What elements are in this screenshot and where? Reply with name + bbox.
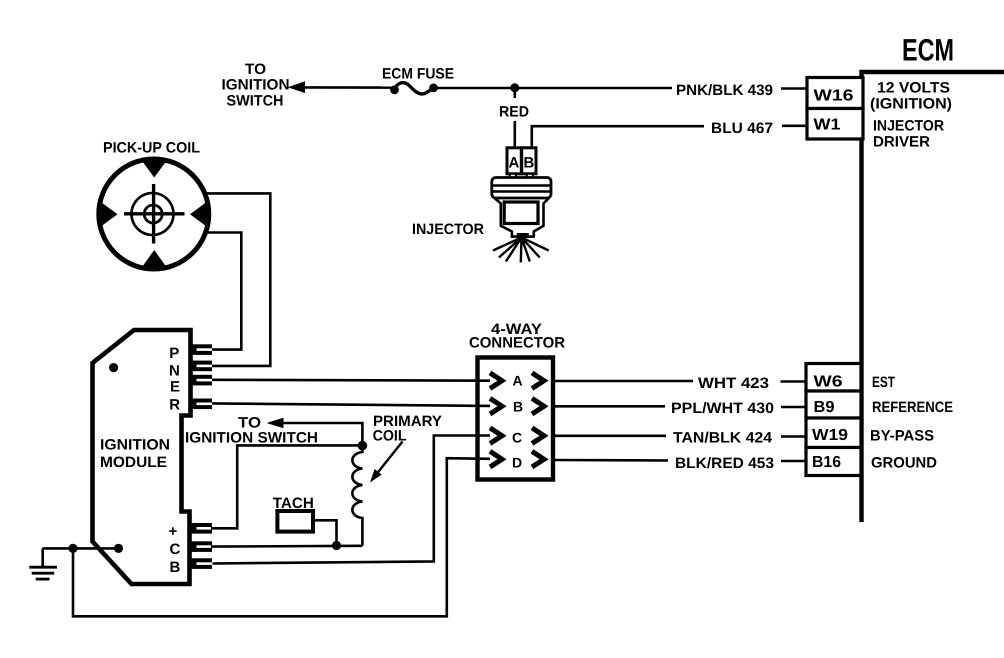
injector body [495,198,550,237]
ground wire into module [43,547,119,550]
pin P [190,344,212,355]
pin C [190,541,212,552]
svg-text:DRIVER: DRIVER [873,134,930,151]
svg-text:REFERENCE: REFERENCE [872,399,953,416]
svg-text:TO: TO [245,61,266,78]
wire R pin to connector B [212,403,490,406]
arrowhead to ignition switch 2 [267,418,284,428]
terminal W6 [806,364,861,392]
injector terminal stubs [510,174,516,180]
terminal B9 [806,391,861,418]
injector inner body [504,202,538,224]
SECTION: ecm [552,33,1004,523]
svg-text:IGNITION: IGNITION [100,437,170,454]
wire arrow to primary coil junction [281,423,362,446]
injector tip [517,233,529,238]
label TO IGNITION SWITCH (top-left) [222,61,290,110]
svg-text:PNK/BLK 439: PNK/BLK 439 [676,82,773,99]
SECTION: pickup coil [99,140,270,366]
wire pickup coil lower to P pin [207,233,242,350]
svg-text:12 VOLTS: 12 VOLTS [877,80,950,97]
arrowhead to ignition switch [288,81,306,93]
injector spray [493,238,549,263]
terminal W19 [806,418,861,448]
svg-text:+: + [169,523,178,540]
arrow pointer to primary coil [375,442,403,477]
svg-text:B: B [524,155,535,172]
pin C chevrons [490,428,502,444]
svg-text:N: N [169,363,180,380]
svg-text:C: C [170,541,181,558]
4-way connector body [478,358,554,480]
wire + pin up to switch wire [211,445,362,528]
wire pickup coil upper to N pin [206,193,271,366]
svg-text:ECM FUSE: ECM FUSE [382,66,454,83]
svg-text:B9: B9 [814,399,835,416]
pin D chevrons [490,451,502,467]
wire stub into W16 [781,87,807,90]
node ground junction [68,544,77,553]
svg-text:INJECTOR: INJECTOR [412,221,484,238]
wire E pin to connector A [212,378,490,382]
SECTION: bottom wiring [185,413,442,550]
svg-text:B: B [170,559,181,576]
wire WHT 423 [552,380,693,383]
svg-text:IGNITION SWITCH: IGNITION SWITCH [185,430,318,447]
module mounting dot upper [109,363,118,372]
wire TACH to junction [313,520,337,545]
SECTION: module [29,330,212,584]
module mounting dot lower [114,544,123,553]
svg-text:IGNITION: IGNITION [222,77,290,94]
wire connector C from below [213,436,491,564]
svg-text:R: R [169,397,180,414]
svg-text:P: P [169,345,179,362]
wire TAN/BLK 424 [552,434,666,437]
wire C pin to coil bottom [211,544,362,547]
svg-text:CONNECTOR: CONNECTOR [469,335,565,352]
wire fuse to W16 (PNK/BLK 439) [434,87,673,90]
tach connector box [277,511,313,532]
svg-text:SWITCH: SWITCH [227,93,284,110]
ECM boundary line [860,70,1004,522]
wire injector pin B up and right (BLU 467) [532,126,704,148]
svg-text:C: C [512,430,522,446]
injector terminal B [522,148,536,174]
pick-up coil body [99,159,209,269]
injector terminal A [507,148,521,174]
node junction at primary coil top [358,441,368,451]
svg-text:WHT 423: WHT 423 [698,375,769,392]
fuse F (ECM FUSE) [390,83,438,95]
node junction dot above injector [510,83,519,92]
svg-text:BY-PASS: BY-PASS [870,428,934,445]
wire RED down to injector pin A [513,121,516,148]
svg-text:PICK-UP COIL: PICK-UP COIL [103,140,200,157]
svg-text:W19: W19 [812,427,848,444]
svg-text:B: B [513,399,523,415]
wire PPL/WHT 430 [552,405,665,408]
inductor primary coil [352,446,362,546]
injector cap [492,178,551,199]
wire connector D from ground bus [73,458,490,616]
wire stub into W1 [782,125,807,128]
svg-text:BLU 467: BLU 467 [711,120,773,137]
pin N [190,361,212,372]
svg-text:BLK/RED 453: BLK/RED 453 [675,455,774,472]
terminal W1 [807,109,863,140]
ignition module body [93,330,191,584]
svg-text:MODULE: MODULE [100,454,167,471]
terminal B16 [806,448,861,476]
pin R [190,399,212,410]
svg-text:B16: B16 [812,454,841,471]
wire RED stub below dot [513,88,516,98]
svg-text:W6: W6 [814,374,843,391]
pin + [190,523,212,534]
svg-text:TAN/BLK 424: TAN/BLK 424 [673,430,773,447]
SECTION: top feed line [222,61,808,148]
svg-text:PPL/WHT 430: PPL/WHT 430 [671,400,774,417]
svg-text:RED: RED [499,104,529,121]
svg-text:ECM: ECM [902,33,954,68]
terminal W16 [807,78,863,109]
pin A chevrons [490,373,502,389]
svg-text:W1: W1 [814,117,841,134]
wire BLK/RED 453 [552,459,668,462]
ground symbol [29,548,57,579]
svg-text:W16: W16 [814,88,854,105]
svg-text:A: A [509,155,520,172]
SECTION: injector [412,148,551,263]
wire to fuse [302,86,392,89]
pin E [190,375,212,386]
svg-text:INJECTOR: INJECTOR [873,118,944,135]
svg-text:GROUND: GROUND [871,455,937,472]
pin B chevrons [490,398,502,414]
svg-text:E: E [170,379,180,396]
svg-text:(IGNITION): (IGNITION) [870,96,952,113]
pin B [190,558,212,569]
svg-text:D: D [512,455,522,471]
SECTION: connector [73,321,565,616]
svg-text:EST: EST [872,374,895,391]
node TACH junction [332,541,341,550]
svg-text:A: A [513,373,523,389]
